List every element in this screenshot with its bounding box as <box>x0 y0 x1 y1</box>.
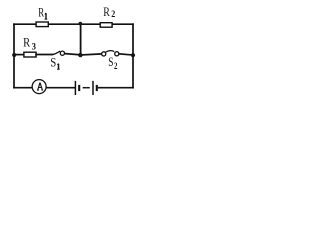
svg-text:S: S <box>108 54 113 69</box>
svg-text:S: S <box>50 54 56 69</box>
svg-text:R: R <box>38 4 44 19</box>
svg-text:2: 2 <box>111 9 115 19</box>
svg-text:3: 3 <box>32 42 37 52</box>
svg-text:R: R <box>103 4 110 19</box>
svg-text:R: R <box>23 35 30 50</box>
svg-text:2: 2 <box>114 61 118 71</box>
